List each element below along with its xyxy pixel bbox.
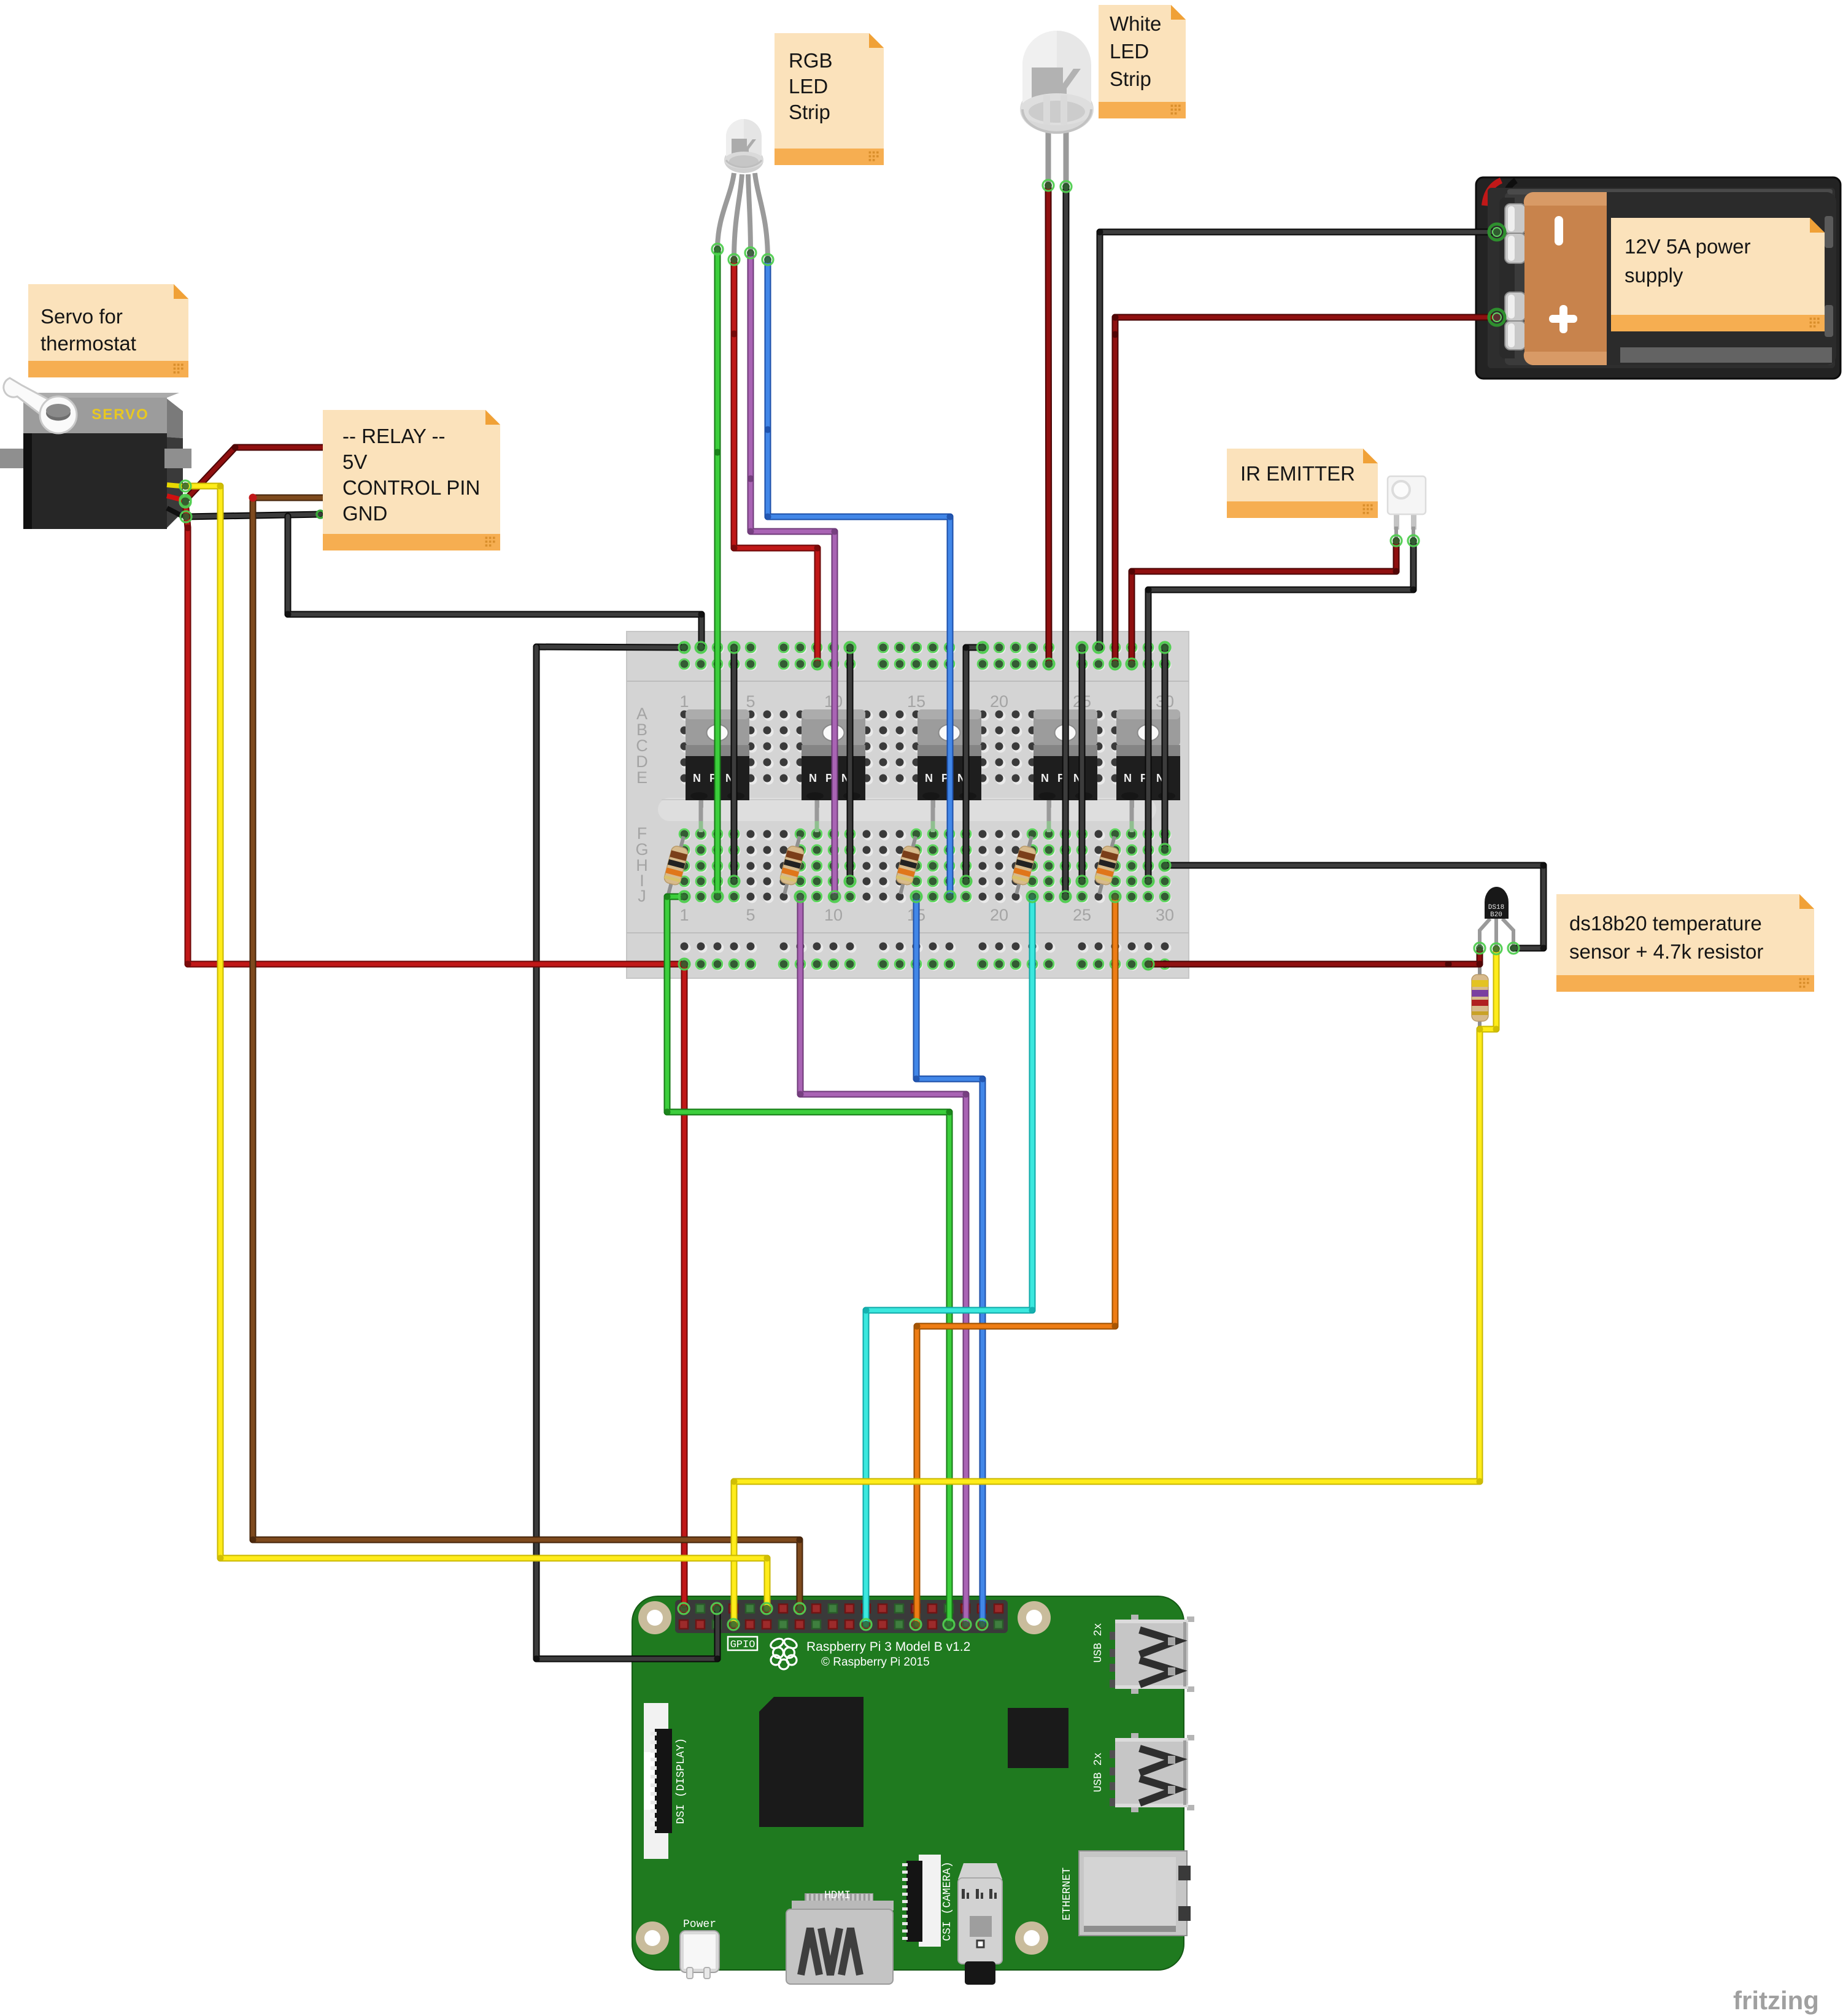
LED3: IR emitter [1388, 476, 1426, 541]
resistor R5 (gate pulldown) [1091, 834, 1122, 896]
wire green signal J1 to GPIO pin17 [664, 894, 953, 1625]
svg-text:ETHERNET: ETHERNET [1061, 1867, 1073, 1921]
raspberry pi logo [769, 1637, 798, 1669]
svg-text:sensor + 4.7k resistor: sensor + 4.7k resistor [1569, 940, 1763, 963]
transistor Q2 (NPN MOSFET TO-220) [802, 709, 865, 832]
wire ds18b20 VCC red to 5V bottom rail [1148, 950, 1483, 968]
resistor R4 (gate pulldown) [1008, 834, 1040, 896]
svg-text:B20: B20 [1490, 911, 1502, 919]
note: RELAY pins [323, 410, 500, 550]
svg-text:Raspberry Pi 3 Model B v1.2: Raspberry Pi 3 Model B v1.2 [806, 1640, 970, 1654]
transistor Q3 (NPN MOSFET TO-220) [918, 709, 981, 832]
wire servo 5V (dark red) to relay note [185, 444, 323, 501]
svg-text:5: 5 [746, 692, 755, 711]
svg-text:20: 20 [990, 692, 1008, 711]
svg-text:5V: 5V [342, 450, 367, 473]
wire GND rail col1 black [536, 647, 684, 647]
BT1: 12V power supply (9V battery holder) [1476, 177, 1841, 379]
wire battery plus red to 12V rail col27 [1112, 314, 1497, 665]
wire RGB green lead to J3 [714, 249, 721, 897]
wire servo red to 5V bottom rail [185, 502, 685, 968]
wire IR anode red to 12V rail col28 [1129, 541, 1400, 664]
wire relay control brown stub [253, 495, 323, 501]
wire RGB blue lead to J17 [765, 260, 954, 897]
wire GND jumper col25 to I25 [1079, 647, 1086, 881]
U1: Raspberry Pi 3 Model B [632, 1596, 1194, 1985]
svg-text:30: 30 [1156, 906, 1174, 924]
svg-text:Servo for: Servo for [41, 305, 123, 328]
svg-text:15: 15 [907, 692, 925, 711]
wire RGB red lead to 12V rail col9 [731, 260, 821, 664]
wire blue signal J15 to GPIO pin19 [913, 897, 986, 1624]
svg-text:CONTROL PIN: CONTROL PIN [342, 476, 480, 499]
wire GND jumper col19 to I18 [963, 644, 983, 882]
wire relay control brown to GPIO pin7 [250, 498, 803, 1609]
wire RGB purple lead to J10 [748, 253, 838, 897]
svg-text:5: 5 [746, 906, 755, 924]
wire orange signal J27 to GPIO pin15 [914, 897, 1119, 1624]
wire cyan signal J22 to GPIO pin12 [863, 897, 1036, 1624]
wire GND jumper col11 to I11 [847, 647, 854, 881]
svg-text:1: 1 [679, 692, 689, 711]
servo motor (Servo for thermostat) [0, 378, 191, 529]
note: RGB LED Strip [775, 33, 884, 165]
svg-text:ds18b20 temperature: ds18b20 temperature [1569, 912, 1762, 935]
note: IR EMITTER [1227, 449, 1378, 518]
wire white LED red to 12V rail col23 [1048, 185, 1049, 664]
svg-text:GND: GND [342, 502, 387, 525]
svg-text:25: 25 [1073, 906, 1091, 924]
wire GND black loop to GPIO pin3 [533, 647, 721, 1663]
connection rings (wire endpoints) [180, 180, 1519, 1630]
wire ds18b20 GND black via H30 [1165, 862, 1547, 952]
wire battery minus black to GND rail col26 [1097, 229, 1497, 648]
wire GND jumper col4 to I4 [731, 647, 738, 881]
svg-text:© Raspberry Pi 2015: © Raspberry Pi 2015 [821, 1656, 930, 1669]
svg-text:12V 5A power: 12V 5A power [1625, 235, 1750, 258]
svg-text:10: 10 [824, 906, 843, 924]
wire servo GND black to relay note [186, 514, 320, 517]
GPIO header J8 [675, 1600, 1008, 1633]
wire white LED black to J24 [1065, 187, 1066, 897]
svg-text:E: E [636, 768, 647, 787]
svg-text:LED: LED [1110, 40, 1149, 63]
transistor Q4 (NPN MOSFET TO-220) [1034, 709, 1097, 832]
transistor Q1 (NPN MOSFET TO-220) [686, 709, 749, 832]
wire IR cathode black to I29 [1145, 541, 1417, 881]
svg-text:USB 2x: USB 2x [1092, 1753, 1105, 1793]
svg-text:J: J [638, 887, 646, 905]
resistor R3 (gate pulldown) [892, 834, 924, 896]
LED2: white LED (2 leads) [1020, 31, 1094, 187]
GPIO label [728, 1637, 757, 1650]
svg-text:USB 2x: USB 2x [1092, 1623, 1105, 1663]
wire GND jumper col30 to G30 [1162, 647, 1169, 849]
resistor R6: 4.7k pullup [1472, 950, 1488, 1033]
svg-text:DS18: DS18 [1488, 904, 1504, 911]
svg-text:Strip: Strip [789, 101, 830, 123]
svg-text:Power: Power [683, 1918, 716, 1931]
resistor R2 (gate pulldown) [776, 834, 808, 896]
wire 5V rail to GPIO pin1 (red) [681, 964, 688, 1605]
svg-text:White: White [1110, 12, 1161, 35]
svg-text:1: 1 [679, 906, 689, 924]
svg-text:DSI (DISPLAY): DSI (DISPLAY) [675, 1738, 687, 1824]
svg-text:HDMI: HDMI [824, 1890, 851, 1902]
svg-text:-- RELAY --: -- RELAY -- [342, 425, 445, 447]
svg-text:LED: LED [789, 75, 828, 98]
wire ds18b20 data yellow to GPIO [731, 949, 1500, 1624]
svg-text:RGB: RGB [789, 49, 833, 72]
note: 12V 5A power supply [1611, 218, 1825, 331]
LED1: RGB LED (4 leads) [717, 119, 768, 260]
U2: ds18b20 temperature sensor [1480, 887, 1513, 949]
wire relay GND black to top rail col2 [285, 516, 705, 647]
svg-text:20: 20 [990, 906, 1008, 924]
svg-text:IR EMITTER: IR EMITTER [1240, 462, 1355, 485]
breadboard [627, 631, 1189, 978]
svg-text:fritzing: fritzing [1733, 1986, 1819, 2015]
svg-text:GPIO: GPIO [730, 1639, 755, 1651]
svg-text:thermostat: thermostat [41, 332, 136, 355]
svg-text:Strip: Strip [1110, 68, 1151, 90]
resistor R1 (gate pulldown) [660, 834, 692, 896]
note: Servo for thermostat [28, 284, 188, 377]
note: White LED Strip [1099, 5, 1186, 118]
note: ds18b20 sensor note [1556, 894, 1814, 992]
svg-text:SERVO: SERVO [91, 406, 149, 423]
transistor Q5 (NPN MOSFET TO-220) [1116, 709, 1180, 832]
svg-text:CSI (CAMERA): CSI (CAMERA) [941, 1861, 954, 1941]
wire servo signal yellow to GPIO pin5 [185, 483, 771, 1609]
svg-text:supply: supply [1625, 264, 1683, 287]
wire purple signal J8 to GPIO pin18 [797, 897, 970, 1624]
